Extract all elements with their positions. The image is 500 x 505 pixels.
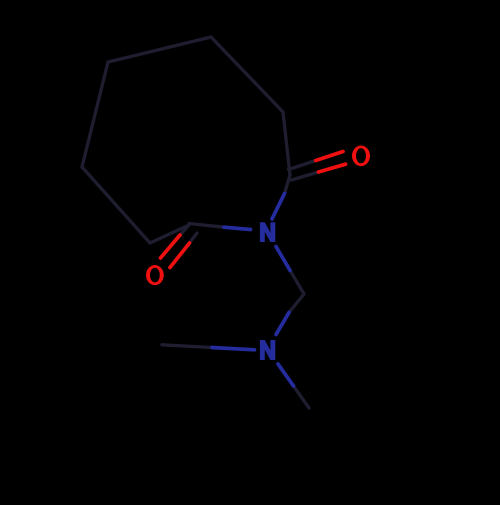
bond N2-CH3 right nitrogen half bbox=[278, 364, 294, 386]
bond ring C2-C3 bbox=[82, 167, 150, 243]
atom label O2 bbox=[146, 265, 164, 285]
double bond C1=O2 line B oxygen half bbox=[170, 243, 190, 268]
bond CH2-N2 carbon half bbox=[289, 294, 304, 313]
bond N2-CH3 left nitrogen half bbox=[212, 348, 255, 350]
bond C7-N1 carbon half bbox=[285, 175, 291, 194]
double bond C7=O1 lower line carbon half bbox=[292, 172, 319, 180]
bond ring C6-C7 (to carbonyl C7) bbox=[283, 112, 290, 175]
double bond C7=O1 lower line oxygen half bbox=[319, 164, 346, 172]
atom label N2 bbox=[260, 340, 275, 360]
bond N2-CH3 right carbon half bbox=[294, 386, 310, 408]
bond ring C5-C6 bbox=[211, 37, 283, 112]
bond CH2-N2 nitrogen half bbox=[276, 313, 289, 335]
bond ring C3-C4 bbox=[82, 62, 108, 167]
bond N1-CH2 carbon half bbox=[290, 270, 304, 294]
bond N2-CH3 left carbon half bbox=[162, 345, 212, 348]
atom label N1 bbox=[260, 222, 275, 242]
bond N1-CH2 nitrogen half bbox=[276, 247, 290, 271]
double bond C1=O2 line A oxygen half bbox=[161, 235, 181, 258]
double bond C1=O2 line A carbon half bbox=[180, 225, 189, 235]
double bond C7=O1 upper line carbon half bbox=[289, 161, 316, 170]
bond ring C4-C5 bbox=[108, 37, 211, 62]
bond ring C2-C1 (to carbonyl C1) bbox=[150, 225, 189, 243]
bond C1-N1 nitrogen half bbox=[224, 227, 251, 229]
atom label O1 bbox=[352, 146, 370, 167]
double bond C1=O2 line B carbon half bbox=[189, 233, 197, 244]
bond C1-N1 carbon half bbox=[189, 224, 224, 228]
double bond C7=O1 upper line oxygen half bbox=[316, 152, 343, 161]
bond C7-N1 nitrogen half bbox=[272, 194, 285, 220]
